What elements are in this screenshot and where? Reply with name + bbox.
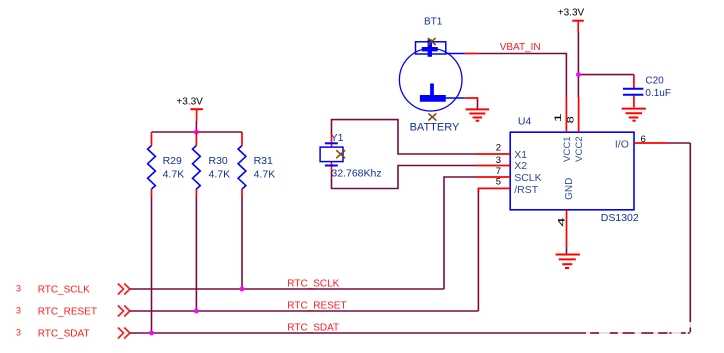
- wire +3.3V down to pin 8: [577, 31, 579, 97]
- wire +3.3V stem to rail: [195, 121, 197, 132]
- pin 4 stub: [566, 210, 568, 247]
- svg-text:5: 5: [496, 177, 501, 188]
- svg-text:I/O: I/O: [615, 138, 629, 150]
- svg-text:4.7K: 4.7K: [254, 168, 276, 180]
- svg-text:RTC_SCLK: RTC_SCLK: [287, 279, 339, 290]
- svg-text:VCC1: VCC1: [562, 136, 573, 162]
- X mark battery bottom pin: [428, 113, 436, 120]
- X mark crystal pin: [336, 150, 345, 158]
- svg-text:RTC_RESET: RTC_RESET: [287, 301, 346, 312]
- X mark battery top pin: [428, 38, 436, 45]
- resistor R30: [193, 132, 231, 197]
- svg-text:R30: R30: [209, 155, 228, 167]
- pin 8 stub: [578, 97, 580, 132]
- svg-text:R29: R29: [163, 155, 182, 167]
- power +3.3V symbol (resistor rail): [176, 97, 203, 121]
- wire crystal top to X1: [332, 120, 477, 154]
- svg-text:C20: C20: [645, 76, 664, 87]
- svg-text:GND: GND: [564, 178, 575, 200]
- svg-text:32.768Khz: 32.768Khz: [331, 168, 381, 180]
- pin 5 stub: [478, 188, 510, 192]
- resistor R31: [238, 132, 275, 197]
- junction rail/+3.3V: [194, 130, 199, 135]
- svg-text:4.7K: 4.7K: [209, 168, 231, 180]
- svg-text:SCLK: SCLK: [514, 172, 541, 184]
- svg-text:X2: X2: [514, 160, 527, 172]
- svg-text:6: 6: [641, 134, 646, 145]
- svg-text:VBAT_IN: VBAT_IN: [500, 42, 541, 53]
- wire branch to C20: [578, 74, 634, 76]
- wire battery minus red stub: [465, 98, 478, 101]
- wire pin5 to RTC_RESET: [477, 190, 479, 311]
- svg-text:3: 3: [16, 283, 21, 293]
- wire right vertical down to RTC_SDAT: [689, 143, 691, 322]
- wire battery plus red stub: [465, 53, 477, 55]
- svg-text:3: 3: [16, 305, 21, 315]
- junction R31/RTC_SCLK: [240, 287, 245, 292]
- svg-text:VCC2: VCC2: [574, 136, 585, 162]
- svg-text:DS1302: DS1302: [601, 212, 639, 224]
- wire pin4 to ground: [566, 247, 568, 254]
- svg-text:0.1uF: 0.1uF: [645, 88, 671, 99]
- wire RTC_SDAT row (solid part): [130, 332, 586, 334]
- wire RTC_RESET row: [130, 310, 479, 312]
- svg-text:3: 3: [496, 155, 501, 166]
- pin 1 stub: [565, 97, 567, 132]
- wire RTC_SCLK row: [130, 288, 444, 290]
- svg-text:RTC_SDAT: RTC_SDAT: [287, 323, 339, 334]
- wire R31 drop to RTC_SCLK: [241, 197, 243, 290]
- wire pin6 I/O to right bus: [668, 142, 690, 144]
- svg-text:Y1: Y1: [331, 132, 344, 144]
- port RTC_RESET: [16, 305, 130, 317]
- wire RTC_SDAT dashes: [590, 332, 690, 334]
- svg-text:7: 7: [496, 166, 501, 177]
- svg-text:RTC_SCLK: RTC_SCLK: [38, 284, 90, 295]
- resistor R29: [148, 132, 185, 197]
- svg-text:2: 2: [496, 142, 501, 153]
- pin 6 stub: [634, 142, 668, 144]
- IC U4 DS1302: [510, 116, 639, 224]
- svg-text:U4: U4: [518, 116, 532, 128]
- svg-text:RTC_RESET: RTC_RESET: [38, 306, 97, 317]
- svg-text:BATTERY: BATTERY: [410, 122, 460, 134]
- wire R30 drop to RTC_RESET: [195, 197, 197, 312]
- junction R29/RTC_SDAT: [149, 331, 154, 336]
- wire VBAT_IN to pin1: [477, 54, 566, 98]
- wire battery minus down to ground: [477, 100, 479, 109]
- ground (battery): [466, 109, 490, 120]
- svg-text:/RST: /RST: [514, 184, 539, 196]
- svg-text:+3.3V: +3.3V: [558, 7, 585, 18]
- ground (U4 pin 4): [556, 255, 580, 269]
- wire pin7 to RTC_SCLK: [444, 177, 476, 289]
- wire resistor top rail: [152, 131, 243, 133]
- svg-text:8: 8: [566, 116, 577, 123]
- port RTC_SCLK: [16, 283, 130, 295]
- capacitor C20: [623, 75, 671, 108]
- svg-text:1: 1: [553, 113, 564, 122]
- battery BT1: [399, 17, 464, 134]
- wire crystal bottom to X2: [332, 166, 477, 189]
- svg-text:3: 3: [16, 327, 21, 337]
- svg-text:+3.3V: +3.3V: [176, 97, 203, 108]
- svg-text:4: 4: [557, 217, 568, 227]
- ground (C20): [622, 109, 646, 121]
- pin 3 stub: [476, 165, 510, 167]
- svg-text:RTC_SDAT: RTC_SDAT: [38, 328, 90, 339]
- wire RTC_SDAT row (faded watermark part): [586, 332, 690, 334]
- crystal Y1: [320, 132, 382, 180]
- pin 2 stub: [476, 153, 510, 155]
- svg-text:4.7K: 4.7K: [163, 168, 185, 180]
- junction R30/RTC_RESET: [194, 309, 199, 314]
- power +3.3V symbol (top right): [558, 7, 585, 31]
- svg-text:R31: R31: [254, 155, 273, 167]
- svg-text:BT1: BT1: [424, 17, 443, 28]
- junction +3.3V/C20: [576, 72, 581, 77]
- pin 7 stub: [476, 176, 510, 178]
- wire R29 drop to RTC_SDAT: [151, 197, 153, 334]
- port RTC_SDAT: [16, 327, 130, 339]
